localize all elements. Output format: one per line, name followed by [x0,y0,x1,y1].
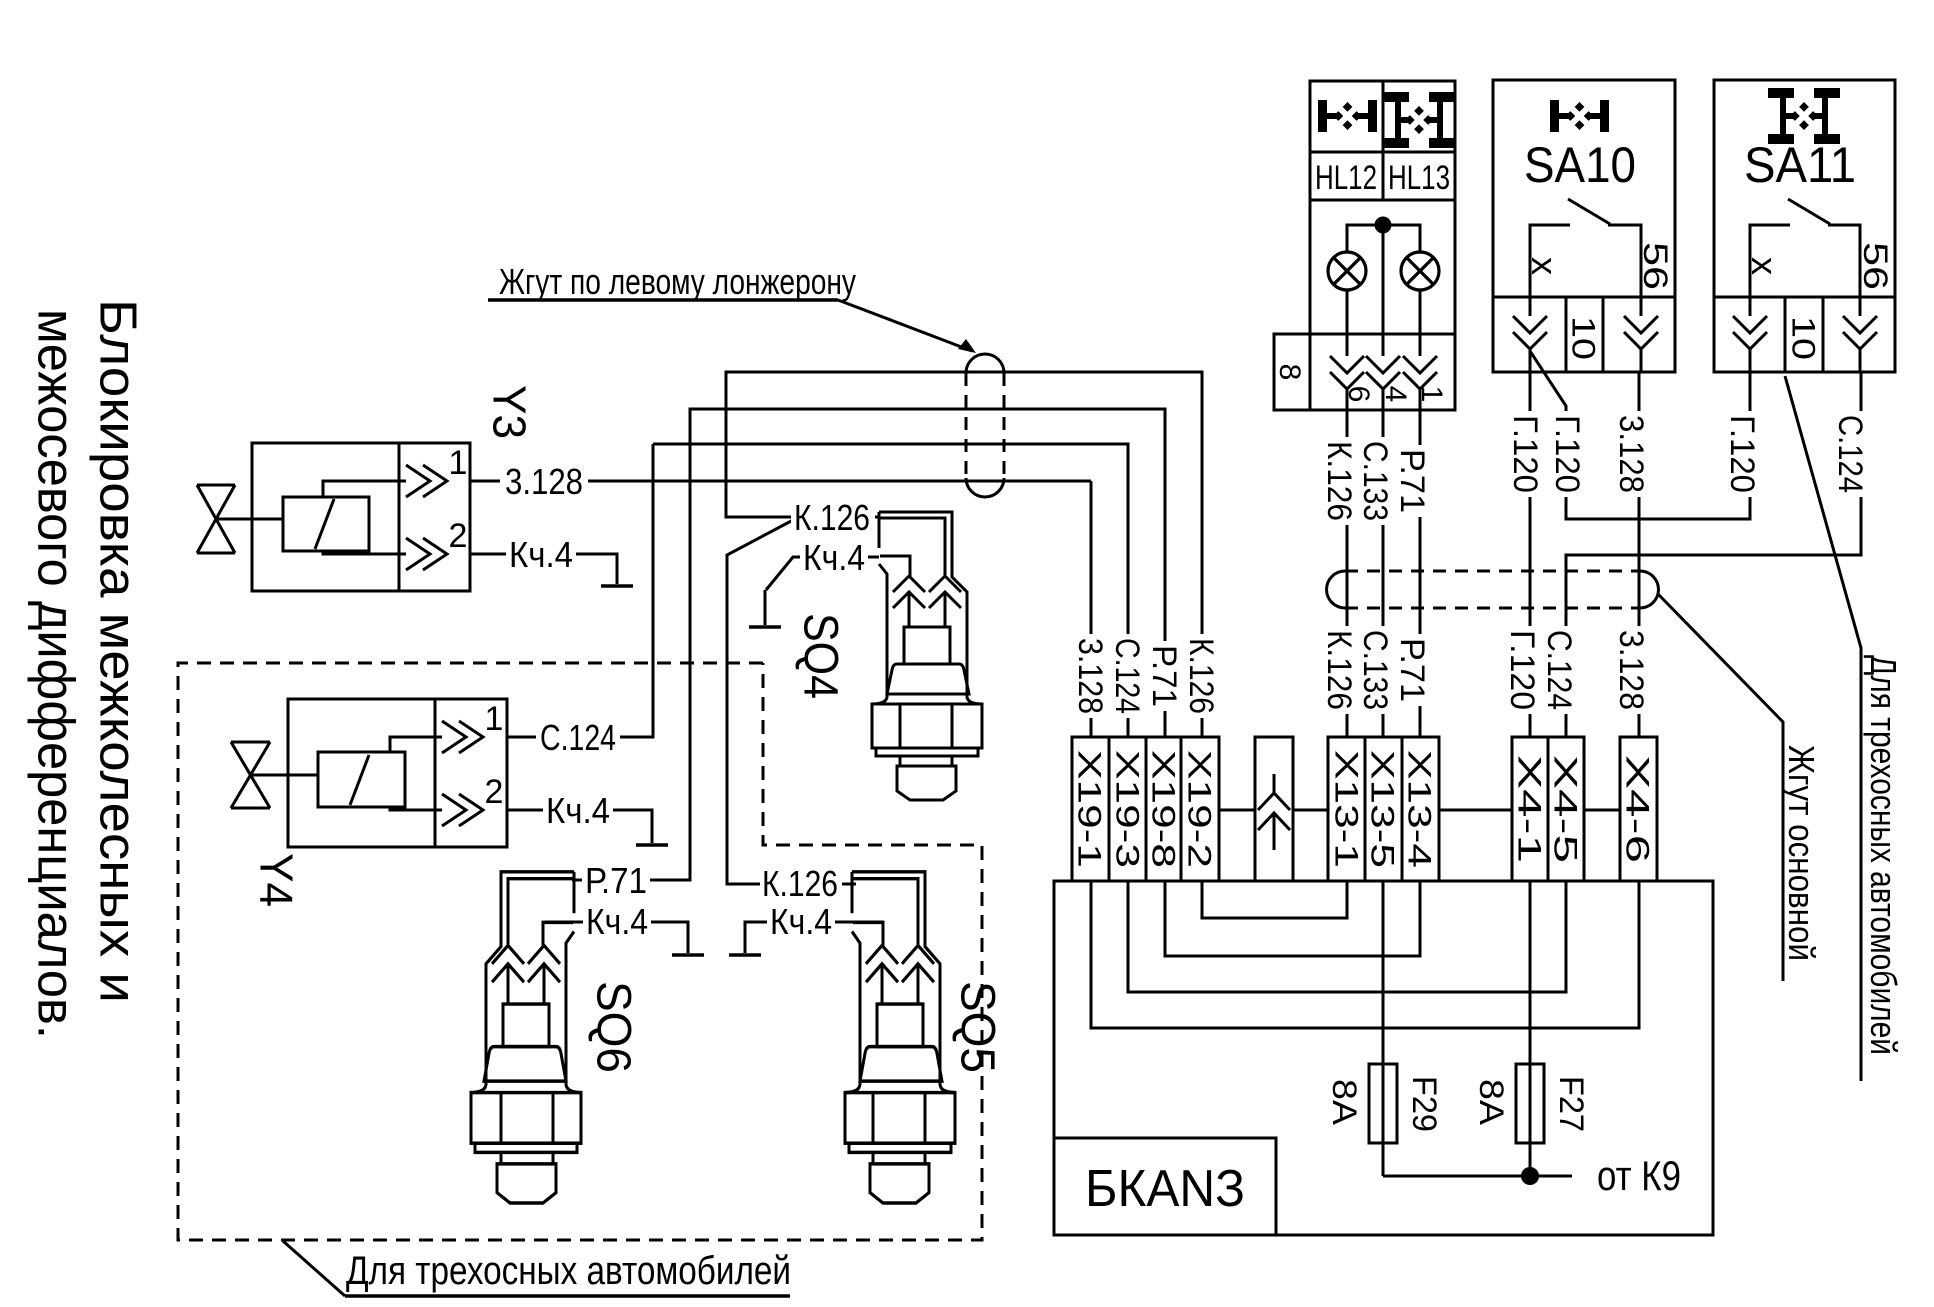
label Р.71 lower [1397,634,1429,706]
svg-text:X4-1: X4-1 [1511,755,1547,863]
svg-text:3.128: 3.128 [1071,638,1109,714]
switch SA11 box [1714,80,1895,372]
wire coil Y4 to pin 2 [390,807,442,810]
switch SA10 box [1493,80,1675,372]
svg-text:Кч.4: Кч.4 [803,537,865,578]
svg-text:Р.71: Р.71 [1393,638,1431,702]
splice cell [1255,737,1293,881]
svg-text:1: 1 [449,444,468,482]
junction dot [1375,217,1392,234]
svg-text:HL13: HL13 [1388,159,1450,197]
link splice to X13 [1293,809,1328,812]
lamp HL13 [1401,252,1439,290]
fuse F29 [1369,1064,1397,1143]
svg-text:4: 4 [1379,386,1412,403]
svg-text:от К9: от К9 [1597,1152,1681,1199]
label Г.120 branch [1553,411,1583,497]
svg-text:Кч.4: Кч.4 [770,901,832,942]
leader to harness marker [838,300,972,351]
label К.126 at SQ4 [791,500,875,534]
indicator lamp block HL12/HL13 [1310,81,1455,410]
svg-text:Г.120: Г.120 [1506,415,1544,493]
connector block X4 [1512,737,1584,881]
pressure switch SQ5 [845,872,955,1203]
diff lock icon SA11 [1768,88,1794,98]
svg-text:8А: 8А [1325,1079,1363,1125]
solenoid Y3 box [252,443,470,591]
ground for Y3 pin 2 [601,584,633,588]
svg-text:К.126: К.126 [1320,630,1358,710]
wire Кч.4 of SQ6 to ground [545,922,688,953]
link X4 to X4-6 [1584,809,1620,812]
svg-text:Для трехосных автомобилей: Для трехосных автомобилей [346,1249,791,1293]
svg-text:6: 6 [1342,386,1375,403]
wire 3.128 SA10 to X4-6 [1638,372,1641,737]
svg-text:Y4: Y4 [250,853,302,907]
label С.124 at X19-3 [1112,634,1144,718]
lamp wiring [1347,225,1420,356]
svg-text:X19-1: X19-1 [1071,750,1107,868]
svg-text:С.124: С.124 [1831,415,1869,493]
svg-text:8А: 8А [1472,1079,1510,1125]
wire coil Y4 to pin 1 [390,737,442,752]
link X19 to splice [1219,809,1255,812]
svg-text:3.128: 3.128 [1612,415,1650,493]
coil Y4 [318,752,405,807]
wire Р.71 bus [572,409,1165,880]
svg-text:Кч.4: Кч.4 [546,790,610,831]
svg-text:F29: F29 [1405,1076,1443,1132]
link X13 to X4 [1439,809,1512,812]
svg-text:х: х [1744,257,1785,275]
pin 1 chevron Y3 [406,465,430,497]
harness marker (left frame harness) [965,373,968,478]
label Г.120 SA11 [1727,411,1759,497]
wire К.126 bus [726,372,1202,737]
unit name box [1054,1138,1276,1235]
connector pin 1 [1403,356,1437,373]
svg-text:X4-6: X4-6 [1619,755,1655,863]
label С.124 lower [1544,626,1576,714]
connector pin 6 [1330,356,1364,373]
svg-text:SQ5: SQ5 [951,981,1004,1073]
dashed option box for three-axle vehicles [178,663,982,1240]
wire coil to pin 2 [323,551,406,554]
connector block X19 [1072,737,1219,881]
switch contact SA11 [1750,225,1860,316]
svg-text:56: 56 [1636,242,1674,290]
label К.126 lower [1324,626,1356,714]
svg-text:К.126: К.126 [1320,441,1358,521]
bottom note leader [283,1241,345,1296]
label 3.128 SA10 [1616,411,1648,497]
label 3.128 at X19-1 [1075,634,1107,718]
wire valve Y4 to coil [252,774,318,777]
svg-text:К.126: К.126 [794,497,870,538]
route С.124 X19-3 to X4-5 [1128,881,1566,992]
wire Кч.4 from Y3 to ground [470,554,617,584]
svg-text:3.128: 3.128 [505,461,583,502]
valve symbol of Y3 [197,485,235,553]
label С.124 SA11 [1835,411,1867,497]
wire Г.120 to fuse F27 [1529,881,1532,1176]
wire stubs through marker redrawn [1346,560,1349,620]
label С.133 lower [1360,626,1392,714]
svg-text:SQ4: SQ4 [794,613,847,699]
svg-text:С.124: С.124 [1108,638,1146,714]
pin 1 chevron Y4 [442,721,466,753]
svg-text:С.133: С.133 [1356,441,1394,521]
svg-text:2: 2 [449,517,468,555]
svg-text:С.133: С.133 [1356,630,1394,710]
pin chevron SA11 right [1843,316,1877,333]
leader for three-axle note right [1785,376,1861,1081]
svg-text:X19-8: X19-8 [1145,750,1181,868]
svg-text:HL12: HL12 [1315,159,1377,197]
label Р.71 upper [1397,445,1429,517]
svg-text:56: 56 [1856,242,1894,290]
svg-text:Р.71: Р.71 [585,860,647,901]
svg-text:Y3: Y3 [483,385,535,439]
label Г.120 lower [1507,626,1539,714]
svg-text:8: 8 [1273,364,1306,381]
svg-text:К.126: К.126 [1182,638,1220,714]
svg-text:Р.71: Р.71 [1145,645,1183,707]
valve symbol of Y4 [231,742,270,808]
diff lock icon HL13 [1383,92,1409,102]
ground for Y4 pin 2 [636,843,668,847]
diff lock icon SA10 [1550,100,1559,132]
wire Кч.4 from Y4 to ground [507,810,652,843]
wire С.124 from Y4 [507,444,653,737]
ground for SQ4 [749,625,781,629]
svg-text:10: 10 [1565,316,1601,360]
svg-text:Для трехосных автомобилей: Для трехосных автомобилей [1863,655,1904,1055]
label К.126 upper [1324,437,1356,525]
route 3.128 X19-1 to X4-6 [1091,881,1639,1028]
wire 3.128 from Y3 [470,480,1091,483]
junction node от К9 [1521,1167,1539,1185]
coil Y3 [283,497,369,551]
leader main harness [1658,594,1783,981]
solenoid Y4 box [288,699,507,847]
connector pin 4 [1366,356,1400,373]
fuse F27 [1516,1064,1544,1143]
svg-text:Жгут основной: Жгут основной [1781,745,1822,961]
svg-text:Кч.4: Кч.4 [509,534,573,575]
wire К.126 branch to SQ5 [727,519,856,884]
svg-text:SA10: SA10 [1524,137,1636,193]
wire valve Y3 to coil [218,518,283,521]
svg-text:х: х [1524,257,1565,275]
wire С.133 HL to X13-5 [1382,410,1385,737]
svg-text:X13-4: X13-4 [1401,750,1437,868]
svg-text:3.128: 3.128 [1612,630,1650,710]
label К.126 at SQ5 [760,866,842,900]
wire coil to pin 1 [323,481,406,497]
svg-text:1: 1 [1415,386,1448,403]
main harness marker [1345,570,1640,573]
wire Р.71 of SQ6 (label) [582,862,650,898]
ground for SQ5 [729,953,761,957]
wire Г.120 link branch [1530,351,1750,519]
wire С.124 SA11 to X4-5 [1566,372,1861,737]
svg-text:Блокировка межколесных и: Блокировка межколесных и [88,299,146,1003]
svg-text:С.124: С.124 [1540,630,1578,710]
pressure switch SQ6 [471,872,581,1203]
svg-text:1: 1 [485,700,504,738]
svg-text:Жгут по левому лонжерону: Жгут по левому лонжерону [499,261,856,302]
connector cell 8 [1274,334,1310,410]
wire 3.128 vertical to X19-1 [1090,481,1093,737]
label Р.71 at X19-8 [1149,641,1181,711]
pin chevron SA11 left [1733,316,1767,333]
ground for SQ6 [672,953,704,957]
wire С.124 bus [653,444,1128,737]
bottom note underline [345,1294,790,1298]
lamp HL12 [1328,252,1366,290]
wire Г.120 SA10 to X4-1 [1529,372,1532,737]
connector X4-6 [1620,737,1657,881]
connector block X13 [1328,737,1439,881]
route К.126 X19-2 to X13-1 [1202,881,1347,918]
label К.126 at X19-2 [1186,634,1218,718]
wire Кч.4 of SQ5 to ground [745,922,883,953]
svg-text:SQ6: SQ6 [587,981,640,1073]
route Р.71 X19-8 to X13-4 [1165,881,1420,956]
wire С.133 to fuse F29 [1382,881,1385,1176]
pin chevron SA10 right [1624,316,1658,333]
diff lock icon HL12 [1318,100,1327,132]
pin 2 chevron Y3 [406,538,430,570]
svg-text:Г.120: Г.120 [1548,415,1586,493]
unit БКАNЗ box [1054,881,1713,1235]
svg-text:X13-1: X13-1 [1328,750,1364,868]
svg-text:10: 10 [1785,316,1821,360]
svg-text:С.124: С.124 [540,717,616,758]
svg-text:К.126: К.126 [762,863,838,904]
wire Р.71 HL13 to X13-4 [1419,410,1422,737]
svg-text:X19-3: X19-3 [1109,750,1145,868]
wire F29 to К9 node [1383,1175,1572,1178]
svg-text:X4-5: X4-5 [1547,755,1583,863]
svg-text:Р.71: Р.71 [1393,449,1431,513]
pressure switch SQ4 [872,512,982,800]
pin chevron SA10 left [1513,316,1547,333]
label Г.120 SA10 [1511,411,1541,497]
svg-text:X13-5: X13-5 [1364,750,1400,868]
label С.133 upper [1360,437,1392,525]
svg-text:X19-2: X19-2 [1181,750,1217,868]
switch contact SA10 [1530,225,1641,316]
svg-text:БКАNЗ: БКАNЗ [1085,1160,1245,1218]
svg-text:2: 2 [485,773,504,811]
svg-text:Кч.4: Кч.4 [586,901,648,942]
wire Кч.4 of SQ4 to ground [765,557,879,625]
svg-text:межосевого дифференциалов.: межосевого дифференциалов. [26,309,84,1039]
wire К.126 HL12 to X13-1 [1346,410,1349,737]
svg-text:F27: F27 [1552,1076,1590,1132]
svg-text:SA11: SA11 [1744,137,1856,193]
svg-text:Г.120: Г.120 [1503,630,1541,710]
label 3.128 lower [1616,626,1648,714]
pin 2 chevron Y4 [442,794,466,826]
svg-text:Г.120: Г.120 [1723,415,1761,493]
